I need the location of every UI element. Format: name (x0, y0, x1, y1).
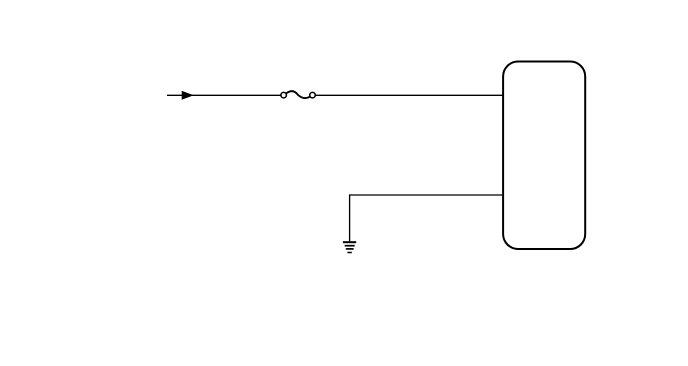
wire W3 (component to ground, horizontal) (350, 194, 503, 196)
arrowhead (signal direction) (182, 91, 193, 99)
component U1 (rounded box) (503, 62, 585, 250)
wire W4 (ground drop, vertical) (349, 194, 351, 241)
wire W1 (input lead) (167, 94, 281, 96)
circuit breaker CB1 (281, 91, 315, 98)
wire W2 (breaker to component) (315, 94, 502, 96)
ground (343, 242, 356, 252)
